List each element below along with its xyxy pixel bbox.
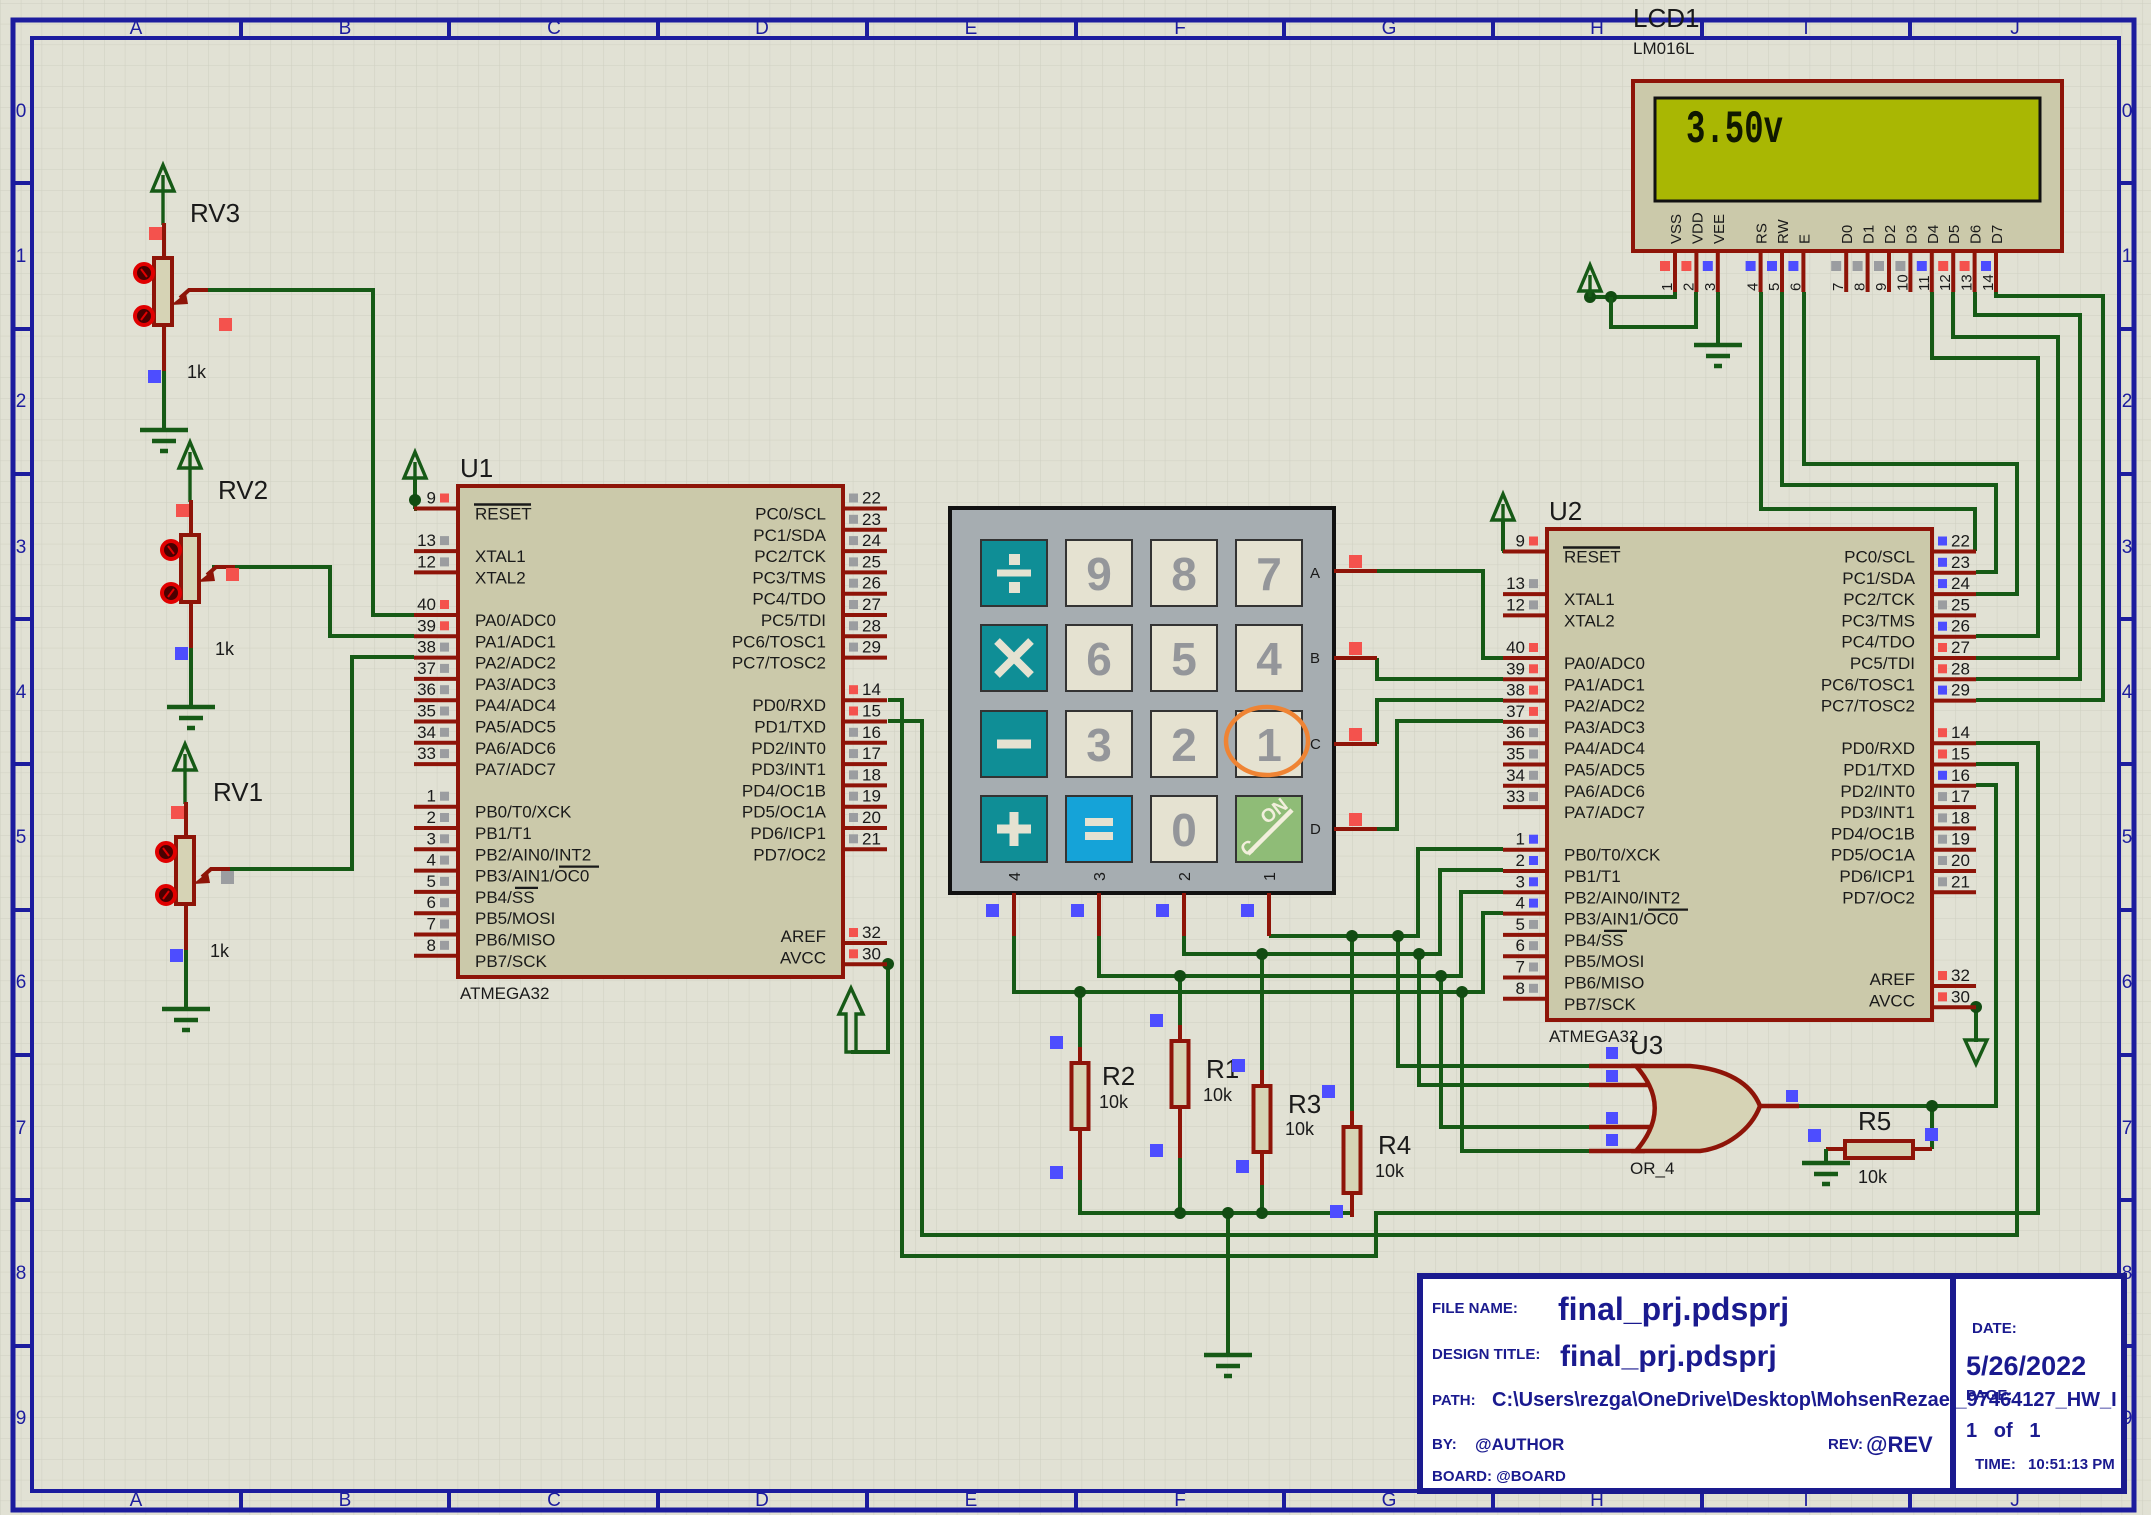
svg-text:3.50v: 3.50v bbox=[1686, 104, 1783, 156]
svg-text:PC1/SDA: PC1/SDA bbox=[753, 526, 826, 545]
svg-text:FILE NAME:: FILE NAME: bbox=[1432, 1300, 1518, 1317]
svg-text:9: 9 bbox=[427, 489, 436, 508]
svg-text:29: 29 bbox=[1951, 681, 1970, 700]
svg-text:LCD1: LCD1 bbox=[1633, 3, 1699, 33]
svg-text:4: 4 bbox=[1007, 872, 1024, 881]
svg-text:1 of 1: 1 of 1 bbox=[1966, 1420, 2040, 1442]
svg-text:C: C bbox=[547, 1490, 561, 1511]
svg-text:PB2/AIN0/INT2: PB2/AIN0/INT2 bbox=[475, 845, 591, 864]
resistor R5 10k bbox=[1808, 1106, 1938, 1187]
svg-text:10k: 10k bbox=[1858, 1167, 1888, 1187]
svg-text:3: 3 bbox=[16, 537, 27, 558]
svg-text:F: F bbox=[1174, 1490, 1186, 1511]
svg-text:PD6/ICP1: PD6/ICP1 bbox=[750, 824, 826, 843]
svg-text:PC2/TCK: PC2/TCK bbox=[1843, 590, 1915, 609]
power symbol U1 AVCC (upward flag) bbox=[839, 988, 863, 1052]
svg-text:14: 14 bbox=[1951, 723, 1970, 742]
svg-text:REV:: REV: bbox=[1828, 1436, 1863, 1453]
svg-text:2: 2 bbox=[16, 391, 27, 412]
wire U1 RESET power bbox=[409, 478, 421, 509]
svg-text:A: A bbox=[1310, 565, 1320, 582]
svg-text:5: 5 bbox=[427, 872, 436, 891]
svg-text:PD5/OC1A: PD5/OC1A bbox=[742, 803, 827, 822]
svg-text:VSS: VSS bbox=[1668, 214, 1685, 244]
svg-text:8: 8 bbox=[16, 1263, 27, 1284]
svg-text:PB0/T0/XCK: PB0/T0/XCK bbox=[1564, 846, 1661, 865]
svg-text:PC5/TDI: PC5/TDI bbox=[1850, 654, 1915, 673]
svg-text:PA5/ADC5: PA5/ADC5 bbox=[475, 718, 556, 737]
svg-text:30: 30 bbox=[862, 944, 881, 963]
svg-text:D6: D6 bbox=[1968, 225, 1985, 244]
svg-text:RV2: RV2 bbox=[218, 475, 268, 505]
svg-text:PA5/ADC5: PA5/ADC5 bbox=[1564, 761, 1645, 780]
svg-text:3: 3 bbox=[1702, 283, 1719, 291]
svg-text:U2: U2 bbox=[1549, 496, 1582, 526]
svg-text:21: 21 bbox=[1951, 872, 1970, 891]
svg-text:PD7/OC2: PD7/OC2 bbox=[753, 845, 826, 864]
svg-text:15: 15 bbox=[862, 702, 881, 721]
svg-text:14: 14 bbox=[862, 680, 881, 699]
svg-text:PB2/AIN0/INT2: PB2/AIN0/INT2 bbox=[1564, 888, 1680, 907]
wire LCD VSS to power bbox=[1584, 291, 1675, 303]
svg-text:0: 0 bbox=[16, 101, 27, 122]
svg-text:4: 4 bbox=[1516, 894, 1525, 913]
svg-text:13: 13 bbox=[417, 531, 436, 550]
svg-text:PC2/TCK: PC2/TCK bbox=[754, 547, 826, 566]
keypad key equals bbox=[1066, 796, 1132, 862]
microcontroller U2 ATMEGA32 bbox=[1503, 496, 1976, 1046]
svg-text:PD4/OC1B: PD4/OC1B bbox=[742, 781, 826, 800]
svg-text:12: 12 bbox=[417, 552, 436, 571]
svg-text:E: E bbox=[1796, 234, 1813, 244]
svg-text:XTAL2: XTAL2 bbox=[475, 568, 526, 587]
wire LCD RS to U2 PC0 bbox=[1761, 292, 1975, 551]
svg-text:40: 40 bbox=[1506, 638, 1525, 657]
svg-text:PD1/TXD: PD1/TXD bbox=[754, 718, 826, 737]
svg-text:6: 6 bbox=[427, 893, 436, 912]
svg-text:25: 25 bbox=[1951, 595, 1970, 614]
svg-text:A: A bbox=[130, 18, 143, 39]
svg-text:G: G bbox=[1382, 1490, 1397, 1511]
resistor R4 10k bbox=[1322, 1085, 1411, 1218]
svg-text:F: F bbox=[1174, 18, 1186, 39]
power symbol U2 AVCC (down arrow) bbox=[1965, 1040, 1987, 1064]
svg-text:4: 4 bbox=[1745, 283, 1762, 291]
svg-text:10k: 10k bbox=[1099, 1092, 1129, 1112]
svg-text:9: 9 bbox=[1516, 532, 1525, 551]
svg-text:PB4/SS: PB4/SS bbox=[475, 888, 535, 907]
svg-text:B: B bbox=[339, 1490, 352, 1511]
svg-text:PB4/SS: PB4/SS bbox=[1564, 931, 1624, 950]
svg-text:2: 2 bbox=[427, 808, 436, 827]
svg-text:final_prj.pdsprj: final_prj.pdsprj bbox=[1558, 1291, 1789, 1327]
svg-text:2: 2 bbox=[1680, 283, 1697, 291]
svg-text:12: 12 bbox=[1506, 595, 1525, 614]
svg-text:7: 7 bbox=[1256, 548, 1282, 600]
wire R5 left to ground bbox=[1802, 1149, 1850, 1184]
svg-text:19: 19 bbox=[862, 787, 881, 806]
svg-text:10k: 10k bbox=[1375, 1161, 1405, 1181]
svg-text:PA6/ADC6: PA6/ADC6 bbox=[1564, 782, 1645, 801]
svg-text:5: 5 bbox=[2122, 827, 2133, 848]
power symbol U1 RESET bbox=[404, 452, 426, 478]
wire RV2 wiper to U1 PA1 bbox=[212, 567, 414, 636]
svg-text:AVCC: AVCC bbox=[780, 948, 826, 967]
keypad key 7 bbox=[1236, 540, 1302, 606]
svg-text:8: 8 bbox=[1516, 979, 1525, 998]
svg-text:XTAL2: XTAL2 bbox=[1564, 611, 1615, 630]
wire U2 RESET power bbox=[1502, 520, 1503, 551]
svg-text:PC1/SDA: PC1/SDA bbox=[1842, 569, 1915, 588]
svg-text:7: 7 bbox=[1830, 283, 1847, 291]
svg-text:12: 12 bbox=[1937, 274, 1954, 291]
svg-text:PC4/TDO: PC4/TDO bbox=[752, 590, 826, 609]
svg-text:7: 7 bbox=[16, 1118, 27, 1139]
svg-text:1k: 1k bbox=[215, 639, 235, 659]
svg-text:1: 1 bbox=[2122, 246, 2133, 267]
svg-text:0: 0 bbox=[1171, 804, 1197, 856]
svg-text:1: 1 bbox=[1516, 830, 1525, 849]
svg-text:I: I bbox=[1803, 18, 1808, 39]
svg-text:10k: 10k bbox=[1203, 1085, 1233, 1105]
svg-text:PB1/T1: PB1/T1 bbox=[475, 824, 532, 843]
svg-text:3: 3 bbox=[1516, 872, 1525, 891]
svg-text:PC4/TDO: PC4/TDO bbox=[1841, 633, 1915, 652]
svg-text:PB7/SCK: PB7/SCK bbox=[475, 952, 547, 971]
svg-text:10k: 10k bbox=[1285, 1119, 1315, 1139]
svg-text:PB7/SCK: PB7/SCK bbox=[1564, 995, 1636, 1014]
svg-text:PD2/INT0: PD2/INT0 bbox=[751, 739, 826, 758]
wire U2 AVCC power flag bbox=[1970, 1001, 1982, 1042]
keypad key 6 bbox=[1066, 625, 1132, 691]
svg-text:R5: R5 bbox=[1858, 1106, 1891, 1136]
svg-text:RV3: RV3 bbox=[190, 198, 240, 228]
keypad key 5 bbox=[1151, 625, 1217, 691]
svg-text:4: 4 bbox=[16, 682, 27, 703]
svg-text:8: 8 bbox=[427, 936, 436, 955]
wire U1 PD0 to U2 PD0 bbox=[888, 700, 2038, 1256]
keypad key plus bbox=[981, 796, 1047, 862]
svg-text:PD4/OC1B: PD4/OC1B bbox=[1831, 824, 1915, 843]
annotation circle on key 1 bbox=[1226, 707, 1308, 775]
svg-text:PB6/MISO: PB6/MISO bbox=[1564, 974, 1644, 993]
svg-text:37: 37 bbox=[417, 659, 436, 678]
svg-text:30: 30 bbox=[1951, 987, 1970, 1006]
wire keypad row D to U2 PA3 bbox=[1377, 721, 1503, 829]
svg-text:32: 32 bbox=[1951, 966, 1970, 985]
keypad row labels A-D bbox=[1310, 565, 1321, 838]
svg-text:33: 33 bbox=[1506, 787, 1525, 806]
svg-text:2: 2 bbox=[1171, 719, 1197, 771]
resistor R1 10k bbox=[1150, 1014, 1239, 1158]
svg-text:9: 9 bbox=[1873, 283, 1890, 291]
svg-text:PD6/ICP1: PD6/ICP1 bbox=[1839, 867, 1915, 886]
wire LCD D6 to U2 PC6 bbox=[1975, 292, 2080, 679]
keypad key 2 bbox=[1151, 711, 1217, 777]
svg-text:17: 17 bbox=[1951, 787, 1970, 806]
svg-text:8: 8 bbox=[1852, 283, 1869, 291]
svg-text:PC7/TOSC2: PC7/TOSC2 bbox=[732, 654, 826, 673]
svg-text:U1: U1 bbox=[460, 453, 493, 483]
ground symbol main bbox=[1204, 1355, 1252, 1376]
keypad body bbox=[950, 508, 1334, 893]
svg-text:6: 6 bbox=[1787, 283, 1804, 291]
svg-text:26: 26 bbox=[862, 574, 881, 593]
svg-text:28: 28 bbox=[1951, 659, 1970, 678]
svg-text:20: 20 bbox=[1951, 851, 1970, 870]
svg-text:LM016L: LM016L bbox=[1633, 39, 1694, 58]
power symbol U2 RESET bbox=[1492, 494, 1514, 520]
svg-text:AVCC: AVCC bbox=[1869, 991, 1915, 1010]
svg-text:4: 4 bbox=[2122, 682, 2133, 703]
svg-text:PC3/TMS: PC3/TMS bbox=[1841, 611, 1915, 630]
wire LCD RW to U2 PC1 bbox=[1782, 292, 1996, 572]
keypad key multiply bbox=[981, 625, 1047, 691]
svg-text:PA7/ADC7: PA7/ADC7 bbox=[475, 760, 556, 779]
svg-text:@AUTHOR: @AUTHOR bbox=[1475, 1435, 1564, 1454]
svg-text:1: 1 bbox=[1659, 283, 1676, 291]
wire keypad col3 net to U2 PB2, R1, OR input 3 bbox=[1099, 892, 1589, 1127]
resistor R2 10k bbox=[1050, 1036, 1135, 1180]
svg-text:9: 9 bbox=[16, 1408, 27, 1429]
svg-text:D5: D5 bbox=[1946, 225, 1963, 244]
svg-text:XTAL1: XTAL1 bbox=[1564, 590, 1615, 609]
svg-text:6: 6 bbox=[2122, 972, 2133, 993]
svg-text:24: 24 bbox=[1951, 574, 1970, 593]
svg-text:37: 37 bbox=[1506, 702, 1525, 721]
svg-text:35: 35 bbox=[417, 702, 436, 721]
svg-text:PA1/ADC1: PA1/ADC1 bbox=[475, 632, 556, 651]
svg-text:33: 33 bbox=[417, 744, 436, 763]
svg-text:14: 14 bbox=[1980, 274, 1997, 291]
svg-text:39: 39 bbox=[417, 616, 436, 635]
svg-text:E: E bbox=[965, 1490, 978, 1511]
svg-text:5: 5 bbox=[1171, 633, 1197, 685]
svg-text:1: 1 bbox=[1256, 719, 1282, 771]
keypad key 4 bbox=[1236, 625, 1302, 691]
wire LCD D4 to U2 PC4 bbox=[1932, 292, 2038, 636]
svg-text:2: 2 bbox=[2122, 391, 2133, 412]
svg-text:26: 26 bbox=[1951, 617, 1970, 636]
svg-text:PD0/RXD: PD0/RXD bbox=[1841, 739, 1915, 758]
LCD display LCD1 LM016L bbox=[1633, 3, 2062, 292]
keypad key 3 bbox=[1066, 711, 1132, 777]
svg-text:1k: 1k bbox=[187, 362, 207, 382]
svg-text:PB6/MISO: PB6/MISO bbox=[475, 931, 555, 950]
svg-text:PB5/MOSI: PB5/MOSI bbox=[1564, 952, 1644, 971]
svg-text:21: 21 bbox=[862, 829, 881, 848]
svg-text:PA2/ADC2: PA2/ADC2 bbox=[475, 654, 556, 673]
wire keypad row C to U2 PA2 bbox=[1377, 700, 1503, 744]
svg-text:PA1/ADC1: PA1/ADC1 bbox=[1564, 675, 1645, 694]
or-gate U3 OR_4 bbox=[1589, 1030, 1799, 1178]
svg-text:RESET: RESET bbox=[1564, 548, 1621, 567]
svg-text:PC6/TOSC1: PC6/TOSC1 bbox=[1821, 675, 1915, 694]
keypad key minus bbox=[981, 711, 1047, 777]
svg-text:36: 36 bbox=[417, 680, 436, 699]
wire U1 AVCC power bbox=[851, 958, 894, 1052]
svg-text:PD0/RXD: PD0/RXD bbox=[752, 696, 826, 715]
power symbol LCD VSS bbox=[1579, 265, 1601, 297]
svg-text:10:51:13 PM: 10:51:13 PM bbox=[2028, 1456, 2115, 1473]
svg-text:XTAL1: XTAL1 bbox=[475, 547, 526, 566]
svg-text:7: 7 bbox=[1516, 958, 1525, 977]
svg-text:ATMEGA32: ATMEGA32 bbox=[460, 984, 549, 1003]
svg-text:16: 16 bbox=[862, 723, 881, 742]
svg-text:VEE: VEE bbox=[1711, 214, 1728, 244]
svg-text:D4: D4 bbox=[1925, 225, 1942, 244]
svg-text:7: 7 bbox=[427, 915, 436, 934]
svg-text:23: 23 bbox=[1951, 553, 1970, 572]
svg-text:PATH:: PATH: bbox=[1432, 1392, 1476, 1409]
wire LCD VEE to ground bbox=[1694, 292, 1742, 366]
svg-text:PA0/ADC0: PA0/ADC0 bbox=[475, 611, 556, 630]
svg-text:PA7/ADC7: PA7/ADC7 bbox=[1564, 803, 1645, 822]
svg-text:34: 34 bbox=[1506, 766, 1525, 785]
svg-text:PC0/SCL: PC0/SCL bbox=[1844, 548, 1915, 567]
svg-text:5/26/2022: 5/26/2022 bbox=[1966, 1351, 2086, 1381]
wire keypad row A to U2 PA0 bbox=[1377, 571, 1503, 658]
svg-text:C:\Users\rezga\OneDrive\Deskto: C:\Users\rezga\OneDrive\Desktop\MohsenRe… bbox=[1492, 1389, 2117, 1411]
svg-text:PB3/AIN1/OC0: PB3/AIN1/OC0 bbox=[1564, 910, 1678, 929]
svg-text:E: E bbox=[965, 18, 978, 39]
svg-text:4: 4 bbox=[427, 851, 436, 870]
svg-text:18: 18 bbox=[1951, 808, 1970, 827]
svg-text:PC6/TOSC1: PC6/TOSC1 bbox=[732, 632, 826, 651]
svg-text:PD7/OC2: PD7/OC2 bbox=[1842, 888, 1915, 907]
svg-text:PD1/TXD: PD1/TXD bbox=[1843, 761, 1915, 780]
wire ground rail under resistors bbox=[1080, 1158, 1352, 1355]
svg-text:PB5/MOSI: PB5/MOSI bbox=[475, 909, 555, 928]
svg-text:R3: R3 bbox=[1288, 1089, 1321, 1119]
svg-text:U3: U3 bbox=[1630, 1030, 1663, 1060]
svg-text:J: J bbox=[2010, 18, 2020, 39]
title block bbox=[1420, 1276, 2124, 1491]
svg-text:PD2/INT0: PD2/INT0 bbox=[1840, 782, 1915, 801]
keypad column pins stubs bbox=[986, 893, 1269, 936]
svg-text:23: 23 bbox=[862, 510, 881, 529]
svg-text:1: 1 bbox=[16, 246, 27, 267]
svg-text:6: 6 bbox=[1516, 936, 1525, 955]
svg-text:5: 5 bbox=[1766, 283, 1783, 291]
svg-text:PA4/ADC4: PA4/ADC4 bbox=[475, 696, 556, 715]
svg-text:G: G bbox=[1382, 18, 1397, 39]
svg-text:D0: D0 bbox=[1839, 225, 1856, 244]
svg-text:PA0/ADC0: PA0/ADC0 bbox=[1564, 654, 1645, 673]
svg-text:38: 38 bbox=[1506, 681, 1525, 700]
svg-text:3: 3 bbox=[2122, 537, 2133, 558]
svg-text:PC5/TDI: PC5/TDI bbox=[761, 611, 826, 630]
wire keypad col4 net to U2 PB3, R2, OR input 4 bbox=[1014, 913, 1589, 1151]
svg-text:PC3/TMS: PC3/TMS bbox=[752, 568, 826, 587]
svg-text:RS: RS bbox=[1754, 223, 1771, 244]
svg-text:C: C bbox=[1310, 736, 1321, 753]
wire LCD D7 to U2 PC7 bbox=[1976, 292, 2103, 700]
wire keypad col2 net to U2 PB1, R3, OR input 2 bbox=[1184, 870, 1589, 1085]
svg-text:34: 34 bbox=[417, 723, 436, 742]
svg-text:13: 13 bbox=[1959, 274, 1976, 291]
keypad key divide bbox=[981, 540, 1047, 606]
svg-text:final_prj.pdsprj: final_prj.pdsprj bbox=[1560, 1340, 1777, 1373]
keypad key C/ON bbox=[1236, 795, 1302, 862]
svg-text:29: 29 bbox=[862, 638, 881, 657]
svg-text:PB0/T0/XCK: PB0/T0/XCK bbox=[475, 803, 572, 822]
svg-text:H: H bbox=[1590, 18, 1604, 39]
svg-text:16: 16 bbox=[1951, 766, 1970, 785]
svg-text:R4: R4 bbox=[1378, 1130, 1411, 1160]
svg-text:PD5/OC1A: PD5/OC1A bbox=[1831, 846, 1916, 865]
svg-text:32: 32 bbox=[862, 923, 881, 942]
svg-text:C: C bbox=[547, 18, 561, 39]
potentiometer RV1 1k bbox=[157, 744, 263, 1030]
wire RV1 wiper to U1 PA2 bbox=[229, 657, 414, 869]
keypad key 8 bbox=[1151, 540, 1217, 606]
wire LCD E to U2 PC2 bbox=[1804, 292, 2017, 594]
svg-text:DATE:: DATE: bbox=[1972, 1320, 2017, 1337]
keypad row pins A-D stubs bbox=[1334, 555, 1377, 829]
svg-text:9: 9 bbox=[1086, 548, 1112, 600]
svg-text:19: 19 bbox=[1951, 830, 1970, 849]
svg-text:TIME:: TIME: bbox=[1975, 1456, 2016, 1473]
svg-text:D2: D2 bbox=[1882, 225, 1899, 244]
svg-text:24: 24 bbox=[862, 531, 881, 550]
svg-text:D: D bbox=[755, 18, 769, 39]
wire OR output to U2 PD2 and R5 bbox=[1799, 785, 1996, 1149]
svg-text:11: 11 bbox=[1916, 275, 1933, 291]
wire keypad row B to U2 PA1 bbox=[1377, 658, 1503, 679]
svg-text:3: 3 bbox=[427, 829, 436, 848]
keypad key 1 bbox=[1236, 711, 1302, 777]
svg-text:39: 39 bbox=[1506, 659, 1525, 678]
keypad key 9 bbox=[1066, 540, 1132, 606]
svg-text:7: 7 bbox=[2122, 1118, 2133, 1139]
svg-text:PB1/T1: PB1/T1 bbox=[1564, 867, 1621, 886]
svg-text:PC0/SCL: PC0/SCL bbox=[755, 505, 826, 524]
svg-text:25: 25 bbox=[862, 552, 881, 571]
svg-text:1: 1 bbox=[427, 787, 436, 806]
wire LCD D5 to U2 PC5 bbox=[1953, 292, 2058, 658]
svg-text:6: 6 bbox=[1086, 633, 1112, 685]
svg-text:20: 20 bbox=[862, 808, 881, 827]
svg-text:PD3/INT1: PD3/INT1 bbox=[751, 760, 826, 779]
svg-text:27: 27 bbox=[862, 595, 881, 614]
svg-text:PA2/ADC2: PA2/ADC2 bbox=[1564, 697, 1645, 716]
svg-text:RV1: RV1 bbox=[213, 777, 263, 807]
potentiometer RV2 1k bbox=[162, 442, 268, 728]
svg-text:R2: R2 bbox=[1102, 1061, 1135, 1091]
svg-text:BY:: BY: bbox=[1432, 1436, 1457, 1453]
wire keypad col1 net to U2 PB0, R4, OR input 1 bbox=[1269, 849, 1589, 1111]
svg-text:2: 2 bbox=[1516, 851, 1525, 870]
svg-text:PA3/ADC3: PA3/ADC3 bbox=[1564, 718, 1645, 737]
svg-text:36: 36 bbox=[1506, 723, 1525, 742]
svg-text:PD3/INT1: PD3/INT1 bbox=[1840, 803, 1915, 822]
svg-text:OR_4: OR_4 bbox=[1630, 1159, 1674, 1178]
svg-text:17: 17 bbox=[862, 744, 881, 763]
svg-text:22: 22 bbox=[862, 489, 881, 508]
wire U1 PD1 to U2 PD1 bbox=[888, 721, 2017, 1235]
svg-text:PC7/TOSC2: PC7/TOSC2 bbox=[1821, 697, 1915, 716]
svg-text:RESET: RESET bbox=[475, 505, 532, 524]
svg-text:40: 40 bbox=[417, 595, 436, 614]
svg-text:8: 8 bbox=[1171, 548, 1197, 600]
svg-text:D7: D7 bbox=[1989, 225, 2006, 244]
keypad column labels 4-1 bbox=[1007, 872, 1279, 881]
svg-text:4: 4 bbox=[1256, 633, 1282, 685]
svg-text:PA3/ADC3: PA3/ADC3 bbox=[475, 675, 556, 694]
svg-text:5: 5 bbox=[1516, 915, 1525, 934]
svg-text:3: 3 bbox=[1086, 719, 1112, 771]
